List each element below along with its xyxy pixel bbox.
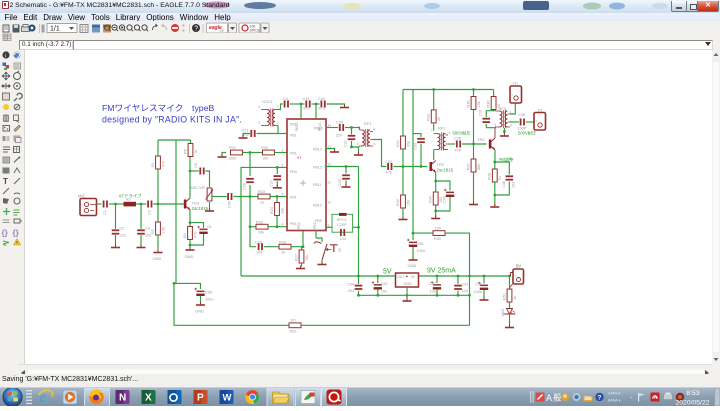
svg-text:R32: R32	[396, 199, 400, 206]
svg-text:C50: C50	[475, 283, 482, 287]
svg-text:X: X	[145, 393, 152, 404]
svg-text:222: 222	[120, 234, 126, 238]
capacitor C2	[112, 227, 126, 238]
junction node rail C51	[457, 275, 460, 278]
wire TR1 collector	[433, 150, 435, 161]
wire IC pin9 to RFC1	[326, 226, 332, 228]
svg-text:R2: R2	[151, 229, 155, 234]
svg-text:C28: C28	[255, 241, 262, 245]
svg-text:13: 13	[328, 145, 332, 149]
resistor R3	[124, 198, 137, 207]
resistor R5	[184, 144, 199, 157]
wire x358.5 column to rail	[358, 167, 360, 277]
svg-text:C6: C6	[207, 225, 212, 229]
wire C30 junction to RF1 pin1	[358, 128, 360, 131]
wire power rail y276	[241, 275, 510, 277]
wire C9 branch	[140, 204, 142, 229]
svg-text:R35: R35	[467, 101, 471, 108]
svg-text:104: 104	[340, 237, 346, 241]
svg-text:2sc1815: 2sc1815	[437, 168, 454, 173]
resistor R21	[228, 146, 243, 161]
wire R51 to LED	[509, 302, 511, 308]
wire R31 to base node	[402, 149, 404, 195]
wire R27 to ground	[301, 263, 303, 267]
wire R3 to C3	[136, 203, 146, 205]
svg-text:22P: 22P	[336, 134, 343, 138]
svg-text:1: 1	[277, 105, 279, 109]
junction node bias divider	[249, 151, 252, 154]
junction node R34 bottom	[434, 210, 437, 213]
wire R36 to RF3 pin1	[493, 110, 495, 111]
wire x250 column	[250, 153, 256, 247]
svg-text:3: 3	[258, 121, 260, 125]
svg-text:C3: C3	[148, 210, 152, 215]
capacitor C36	[495, 175, 516, 195]
junction node R31/R32/base	[402, 165, 405, 168]
svg-text:OUT: OUT	[397, 275, 405, 279]
svg-text:C27: C27	[270, 180, 274, 187]
svg-text:3: 3	[494, 123, 496, 127]
capacitor C26	[243, 178, 254, 190]
ground below C29	[342, 184, 351, 187]
svg-text:KANA ▾: KANA ▾	[608, 399, 621, 403]
capacitor C40 electrolytic	[436, 181, 455, 211]
transistor TR1	[430, 161, 454, 173]
capacitor C52 electrolytic	[429, 276, 441, 295]
svg-text:C42: C42	[318, 97, 325, 101]
capacitor C50 electrolytic	[474, 276, 489, 299]
junction node emitter TR2	[493, 161, 496, 164]
junction node R24/R25	[276, 225, 279, 228]
svg-text:47P: 47P	[455, 149, 462, 153]
junction node TR2 base divider	[472, 143, 475, 146]
svg-text:20k: 20k	[258, 231, 264, 235]
svg-text:A: A	[546, 393, 552, 403]
svg-text:1k: 1k	[281, 251, 285, 255]
junction node C56	[173, 282, 176, 285]
Explorer framed button	[267, 387, 294, 408]
svg-text:5: 5	[374, 142, 376, 146]
capacitor C42	[318, 97, 326, 111]
wire RF2 output to C35	[448, 143, 455, 145]
capacitor C29	[338, 167, 350, 187]
junction node rail C52	[436, 275, 439, 278]
svg-text:47p: 47p	[386, 171, 392, 175]
wire into IC pin16	[315, 104, 317, 119]
ground below C9	[137, 245, 146, 248]
junction node C27 top	[276, 166, 279, 169]
wire C35 to TR2 base	[462, 143, 487, 145]
wire R32 to ground	[402, 208, 404, 218]
trimmer S1	[314, 237, 342, 260]
capacitor C38	[518, 113, 527, 131]
svg-text:C29: C29	[338, 180, 342, 187]
svg-text:PB1: PB1	[290, 196, 297, 200]
wire C9 to ground	[140, 235, 142, 246]
svg-text:SPICE: SPICE	[250, 29, 261, 33]
wire TR1 emitter	[435, 173, 437, 186]
ground below LED	[505, 325, 514, 328]
svg-text:15k: 15k	[477, 101, 481, 107]
ground below C50	[480, 297, 489, 300]
start orb	[3, 387, 22, 406]
svg-text:N: N	[119, 393, 126, 404]
transistor TR3	[184, 198, 209, 211]
svg-text:1: 1	[431, 129, 433, 133]
junction node rail 9V	[508, 275, 511, 278]
grip	[26, 390, 32, 404]
wire long x176 column	[175, 140, 177, 283]
tray IME red icon	[536, 393, 545, 402]
Chrome	[245, 390, 259, 404]
svg-text:TR1: TR1	[437, 162, 445, 167]
svg-text:C38: C38	[518, 113, 525, 117]
svg-text:47k: 47k	[162, 161, 166, 167]
transformer RF3	[494, 106, 512, 128]
wire R35 to base node	[473, 110, 475, 160]
svg-text:PB11: PB11	[313, 183, 322, 187]
junction node R24 top	[276, 195, 279, 198]
ground below R34	[431, 216, 440, 219]
wire R22 to IC pin3	[275, 152, 288, 154]
svg-text:C4: C4	[283, 97, 288, 101]
capacitor C4	[283, 97, 289, 108]
wire LED to ground	[509, 314, 511, 326]
capacitor C28	[255, 241, 263, 255]
wire C56 branch	[174, 283, 201, 289]
svg-text:R36: R36	[487, 101, 491, 108]
svg-text:?: ?	[598, 395, 602, 402]
resistor R50	[433, 227, 445, 242]
junction node C29 top	[345, 165, 348, 168]
svg-text:C26: C26	[243, 183, 247, 190]
resistor R34	[429, 186, 444, 218]
svg-text:R26: R26	[279, 241, 286, 245]
wire IC pin12 net	[326, 166, 359, 168]
taskbar	[0, 387, 720, 406]
connector TX antenna	[534, 108, 546, 131]
svg-text:15k: 15k	[407, 200, 411, 206]
capacitor C55 electrolytic	[407, 233, 425, 258]
svg-text:C51: C51	[462, 283, 469, 287]
ground below R32	[399, 217, 408, 220]
junction node C33 bottom	[420, 165, 423, 168]
svg-text:C36: C36	[502, 181, 506, 188]
wire R26 to IC pin bottom	[291, 231, 303, 251]
junction node emitter TR1	[434, 180, 437, 183]
tray caps text	[608, 392, 621, 403]
wire R37 to ground	[473, 172, 475, 203]
svg-text:20k: 20k	[407, 141, 411, 147]
svg-text:RF1: RF1	[364, 121, 372, 126]
ground below C55	[408, 257, 418, 268]
ground below C2	[111, 245, 120, 248]
svg-text:PB1: PB1	[290, 151, 297, 155]
wire C2 to ground	[115, 235, 117, 246]
svg-text:9V 25mA: 9V 25mA	[427, 268, 456, 275]
wire IC pin13 to ground	[326, 149, 335, 151]
capacitor C30	[336, 121, 344, 138]
wire RF3 bottom to ground	[495, 122, 511, 133]
svg-text:1: 1	[318, 237, 320, 241]
svg-text:3: 3	[282, 149, 284, 153]
svg-text:{}: {}	[2, 229, 8, 238]
svg-text:i: i	[5, 54, 6, 60]
resistor R2	[151, 222, 166, 235]
svg-text:C40: C40	[443, 196, 447, 203]
svg-text:C32: C32	[385, 160, 392, 164]
wire C38 to TX	[526, 121, 534, 123]
svg-text:4: 4	[258, 105, 260, 109]
svg-text:C30: C30	[336, 121, 343, 125]
title bar	[0, 0, 720, 13]
wire TR2 collector	[494, 128, 496, 138]
capacitor C9	[137, 227, 151, 238]
wire TR3 collector column	[189, 140, 192, 198]
svg-text:TR2: TR2	[477, 137, 485, 142]
junction node R4/C6 bottom	[189, 244, 192, 247]
svg-text:R22: R22	[261, 146, 268, 150]
resistor R26	[279, 241, 291, 255]
svg-text:473: 473	[319, 107, 325, 111]
svg-text:100u: 100u	[205, 298, 213, 302]
svg-text:般: 般	[553, 393, 562, 403]
junction node collector/C5	[189, 170, 192, 173]
svg-text:10k: 10k	[281, 208, 285, 214]
capacitor C27	[270, 167, 282, 187]
wire x413 column	[412, 90, 414, 234]
junction node C9 top	[140, 203, 143, 206]
wire rail to R33	[433, 90, 435, 111]
svg-text:PB10: PB10	[313, 203, 322, 207]
svg-text:C2: C2	[120, 227, 125, 231]
resistor R36	[487, 97, 502, 110]
svg-text:6: 6	[282, 163, 284, 167]
svg-text:FMワイヤレスマイク typeB: FMワイヤレスマイク typeB	[102, 103, 214, 113]
svg-text:PB2: PB2	[297, 222, 301, 229]
svg-text:PB4: PB4	[290, 170, 297, 174]
svg-text:1: 1	[495, 106, 497, 110]
svg-text:1: 1	[534, 120, 538, 122]
voltage regulator U2	[396, 273, 419, 287]
capacitor C32	[385, 160, 392, 175]
capacitor C5	[190, 163, 205, 174]
ground below RF1	[354, 152, 363, 155]
svg-text:15: 15	[338, 248, 342, 252]
wire MIC-VR bottom to ground	[209, 202, 211, 210]
svg-text:C53: C53	[381, 282, 388, 286]
svg-text:15k: 15k	[305, 255, 309, 261]
wire C41 to C42	[312, 103, 320, 105]
svg-text:C34: C34	[228, 201, 232, 208]
svg-text:C37: C37	[479, 109, 483, 116]
svg-text:PB12: PB12	[313, 165, 322, 169]
svg-text:designed by ″RADIO KITS IN JA″: designed by ″RADIO KITS IN JA″.	[102, 115, 242, 125]
svg-text:1/1: 1/1	[50, 26, 60, 33]
viewer framed button	[296, 387, 321, 408]
wire R1 column	[157, 140, 159, 222]
svg-text:5: 5	[510, 124, 512, 128]
svg-text:R50: R50	[434, 237, 441, 241]
left tool palette	[0, 50, 25, 364]
svg-text:C35: C35	[454, 137, 461, 141]
wire C30 to RF1	[345, 127, 360, 129]
junction node RF3 gnd	[503, 130, 506, 133]
svg-text:10k: 10k	[262, 157, 268, 161]
wire C31/RF1 ground net	[352, 147, 359, 154]
svg-text:1k: 1k	[260, 201, 264, 205]
svg-text:PB16: PB16	[295, 123, 299, 132]
junction node pin16 drop	[315, 103, 318, 106]
svg-text:10u: 10u	[430, 290, 436, 294]
svg-text:C54: C54	[347, 283, 354, 287]
wire rail corner to R36	[493, 90, 495, 97]
svg-text:8:53: 8:53	[686, 390, 699, 397]
transistor TR2	[477, 137, 495, 150]
wire TR2 emitter net	[495, 150, 510, 175]
ground below R27	[296, 266, 305, 269]
ground below RF3	[500, 133, 509, 136]
wire IC bottom pin to trimmer	[316, 231, 322, 243]
resistor R4	[183, 227, 198, 240]
svg-text:3: 3	[357, 142, 359, 146]
svg-text:2k: 2k	[437, 117, 441, 121]
svg-text:104: 104	[462, 289, 468, 293]
wire R2 to ground	[157, 235, 159, 250]
resistor R24	[270, 197, 285, 227]
capacitor C33	[414, 138, 425, 167]
wire long bottom 5V run	[174, 283, 289, 325]
junction node R25 net	[249, 225, 252, 228]
wire into IC pin1	[300, 104, 302, 119]
capacitor C56 electrolytic	[195, 288, 214, 304]
svg-text:#Tドライブ: #Tドライブ	[119, 193, 142, 200]
menu bar	[0, 13, 720, 22]
resistor R38	[488, 162, 503, 206]
junction node rail x358	[357, 275, 360, 278]
svg-text:14: 14	[328, 123, 332, 127]
svg-text:103: 103	[512, 182, 516, 188]
svg-text:PB13: PB13	[313, 147, 322, 151]
svg-text:C52: C52	[429, 282, 436, 286]
svg-text:472: 472	[303, 107, 309, 111]
junction node gnd net	[350, 146, 353, 149]
ground stub left of R21	[218, 153, 227, 158]
tray separator	[530, 391, 534, 403]
wire branch to C33	[413, 134, 421, 137]
svg-text:C5: C5	[194, 163, 198, 168]
svg-text:PB1: PB1	[290, 222, 297, 226]
schematic canvas	[25, 50, 712, 364]
resistor R22	[261, 146, 275, 161]
svg-text:#M調整: #M調整	[499, 156, 514, 163]
svg-text:2: 2	[277, 121, 279, 125]
junction node emitter	[189, 221, 192, 224]
svg-text:TR3: TR3	[192, 201, 200, 206]
wire RF1 output to C32	[373, 140, 386, 167]
resistor R23	[250, 190, 287, 205]
wire OSC1 pin2 to net	[277, 126, 279, 134]
wire 5V feed into IC pin	[241, 167, 287, 276]
junction node R23 net	[249, 195, 252, 198]
svg-text:R23: R23	[258, 190, 265, 194]
svg-text:C41: C41	[303, 97, 310, 101]
svg-text:4: 4	[373, 128, 375, 132]
ground below C27	[273, 185, 282, 188]
svg-text:OSC1: OSC1	[262, 99, 274, 104]
wire MIC to C1	[97, 203, 102, 205]
ground below R2	[153, 250, 163, 262]
svg-text:500V耐圧: 500V耐圧	[453, 130, 471, 137]
wire regulator gnd pin	[406, 287, 408, 300]
wire 9V to R51	[509, 276, 511, 291]
resistor R25	[250, 221, 287, 235]
svg-text:PB3: PB3	[313, 222, 317, 229]
wire R4 to ground	[189, 240, 191, 249]
LED D1	[501, 308, 516, 316]
svg-text:5V: 5V	[383, 269, 392, 276]
svg-text:P: P	[197, 393, 204, 404]
svg-text:100k: 100k	[228, 157, 236, 161]
svg-text:PB1: PB1	[290, 133, 297, 137]
wire RF3 output to C38	[510, 121, 519, 123]
capacitor C51	[454, 276, 468, 295]
svg-text:C20P: C20P	[337, 223, 347, 227]
wire C42 to ground	[327, 104, 345, 106]
capacitor C34	[227, 193, 232, 208]
junction node R38/C36 bottom	[493, 194, 496, 197]
svg-text:10?: 10?	[290, 319, 296, 323]
capacitor C41	[303, 97, 311, 111]
svg-text:1: 1	[510, 94, 514, 96]
svg-text:R4: R4	[183, 233, 187, 238]
svg-text:RFC1: RFC1	[337, 218, 347, 222]
svg-text:R37: R37	[467, 163, 471, 170]
svg-text:R3: R3	[126, 198, 131, 202]
junction node R26/R27	[302, 245, 305, 248]
svg-text:10u: 10u	[381, 290, 387, 294]
connector MIC	[78, 194, 97, 216]
svg-text:LED: LED	[501, 308, 505, 316]
wire C4 to C41	[290, 103, 305, 105]
wire IC pin14 to C30	[326, 127, 338, 129]
svg-text:100u: 100u	[474, 290, 482, 294]
svg-text:-: -	[630, 395, 633, 402]
wire rail to R31	[402, 90, 404, 137]
resistor R31	[396, 136, 411, 149]
svg-text:u1: u1	[297, 155, 302, 160]
resistor R27	[295, 250, 310, 263]
svg-text:C21: C21	[242, 129, 249, 133]
wire rail to R35	[473, 90, 475, 97]
EAGLE framed button	[322, 387, 347, 408]
transformer OSC1	[258, 99, 279, 127]
toolbars	[0, 21, 720, 33]
resistor R33	[427, 110, 442, 123]
wire C32 to TR1 base	[393, 166, 427, 168]
svg-text:C33: C33	[414, 143, 418, 150]
ground below C56	[195, 302, 205, 314]
wire C5 to MIC-VR	[205, 171, 209, 187]
svg-text:GND: GND	[153, 256, 162, 261]
Excel	[142, 390, 156, 404]
capacitor C1	[103, 201, 108, 216]
wire RF3 to TP	[510, 103, 515, 114]
svg-text:GND: GND	[195, 309, 204, 314]
ground below MIC-VR	[205, 208, 214, 211]
IC U1 MC2831	[282, 119, 332, 231]
ground below R4	[185, 247, 195, 259]
